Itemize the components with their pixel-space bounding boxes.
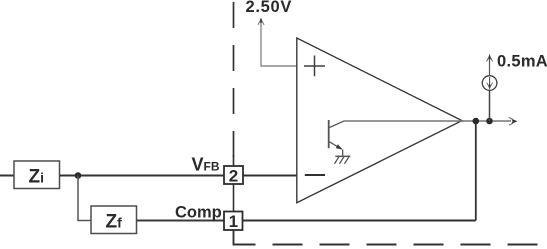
op-amp U1 bbox=[297, 38, 462, 203]
transistor Q1 collector bbox=[330, 121, 345, 128]
transistor Q1 base bar bbox=[328, 120, 330, 148]
node junction dot bbox=[75, 172, 82, 179]
impedance Zf box bbox=[91, 206, 137, 234]
wire input to Zi bbox=[0, 175, 14, 177]
wire Zf to Comp pin bbox=[137, 220, 225, 222]
svg-text:2.50V: 2.50V bbox=[246, 0, 293, 16]
wire current source to node bbox=[489, 90, 491, 121]
wire 2.50V reference to op-amp + input bbox=[261, 20, 297, 67]
minus symbol (inverting input) bbox=[305, 174, 325, 176]
svg-text:Comp: Comp bbox=[175, 204, 222, 222]
IC boundary dashed line (vertical) bbox=[233, 2, 235, 166]
wire pin2 to inverting input bbox=[243, 175, 297, 177]
arrowhead up 0.5mA bbox=[487, 54, 493, 62]
svg-text:2: 2 bbox=[229, 166, 238, 185]
IC boundary dashed line (bottom) bbox=[234, 230, 256, 245]
ground bbox=[335, 156, 351, 164]
arrowhead output right bbox=[509, 117, 518, 125]
pin 1 box bbox=[224, 212, 243, 232]
wire pin2 to pin1 inside boundary bbox=[233, 184, 235, 212]
transistor Q1 emitter with arrow bbox=[330, 142, 343, 157]
wire pin1 Comp net bbox=[243, 220, 476, 222]
svg-text:Zf: Zf bbox=[106, 211, 123, 232]
transistor Q1 collector to output bbox=[345, 120, 463, 122]
plus symbol (non-inverting input) bbox=[304, 56, 325, 77]
wire junction to Zf bbox=[78, 176, 91, 221]
current source I1 bbox=[482, 76, 497, 91]
arrowhead up 2.50V bbox=[258, 17, 264, 25]
wire op-amp output bbox=[462, 120, 511, 122]
wire Zi to VFB pin bbox=[60, 175, 225, 177]
IC boundary dashed line (bottom horizontal) bbox=[256, 244, 547, 246]
svg-text:VFB: VFB bbox=[192, 155, 220, 175]
node dot output B bbox=[486, 118, 493, 125]
pin 2 box bbox=[224, 166, 243, 185]
node dot output A bbox=[473, 118, 480, 125]
wire output feedback vertical bbox=[475, 121, 477, 221]
svg-text:1: 1 bbox=[229, 212, 238, 231]
impedance Zi box bbox=[14, 161, 60, 189]
svg-text:0.5mA: 0.5mA bbox=[497, 52, 547, 70]
svg-text:Zi: Zi bbox=[29, 166, 45, 187]
wire dashed-line bridge to pin2 bbox=[233, 155, 235, 166]
wire current source up bbox=[489, 56, 491, 76]
